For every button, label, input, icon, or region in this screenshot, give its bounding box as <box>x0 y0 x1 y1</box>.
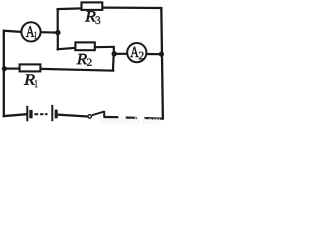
wire right rail <box>161 7 163 120</box>
switch pivot circle <box>88 115 92 119</box>
battery cell 2 long plate <box>51 105 53 121</box>
wire R2 right lead <box>95 46 114 49</box>
ammeter A2 <box>127 43 146 62</box>
switch right post <box>103 111 105 118</box>
wire bottom rail left segment <box>4 114 27 117</box>
wire A1 right lead to node N1 <box>41 31 58 34</box>
node N3 junction dot on right rail <box>159 52 164 57</box>
wire top rail right segment <box>103 6 162 9</box>
node N2 junction dot <box>112 51 117 56</box>
wire bottom right solid segment <box>104 116 118 118</box>
wire dashed between cells <box>34 113 38 115</box>
battery cell 1 long plate <box>26 106 28 122</box>
glyph R1_R <box>24 74 35 84</box>
wire top rail left segment <box>57 7 82 10</box>
wire cell2 to switch <box>58 115 88 117</box>
resistor R2 <box>75 42 94 50</box>
glyph R3_R <box>85 11 96 21</box>
glyph A1_1 <box>35 32 37 39</box>
resistor R3 <box>82 2 103 9</box>
switch blade <box>92 112 104 116</box>
glyph A1_A <box>26 26 34 37</box>
glyph R3_3 <box>96 16 101 24</box>
wire left rail <box>4 31 21 118</box>
node N1 junction dot <box>55 30 60 35</box>
wire vertical R2/R1 to node N2 <box>113 47 114 72</box>
node N4 junction dot on left rail <box>2 66 7 71</box>
wire R1 right lead long to vertical <box>41 69 114 71</box>
ammeter A1 <box>21 22 40 41</box>
wire N2 to A2 <box>114 53 128 55</box>
resistor R1 <box>20 64 41 71</box>
wire bottom right dash 1 <box>126 116 137 119</box>
wire bottom right dash 2 <box>144 117 163 120</box>
glyph A2_A <box>130 47 138 57</box>
battery cell 1 short thick plate <box>29 110 32 118</box>
wire R1 left lead <box>4 67 19 69</box>
glyph A2_2 <box>139 52 144 60</box>
svg-text:manfen5.com: manfen5.com <box>101 116 161 126</box>
wire A2 right lead <box>146 53 162 55</box>
glyph R2_R <box>77 54 87 64</box>
battery cell 2 short thick plate <box>55 110 58 119</box>
wire R2 left lead <box>57 48 76 49</box>
wire N1 down to R2 row <box>57 33 58 50</box>
glyph R2_2 <box>87 59 92 66</box>
glyph R1_1 <box>35 80 37 87</box>
wire N1 up to top rail <box>57 8 59 33</box>
